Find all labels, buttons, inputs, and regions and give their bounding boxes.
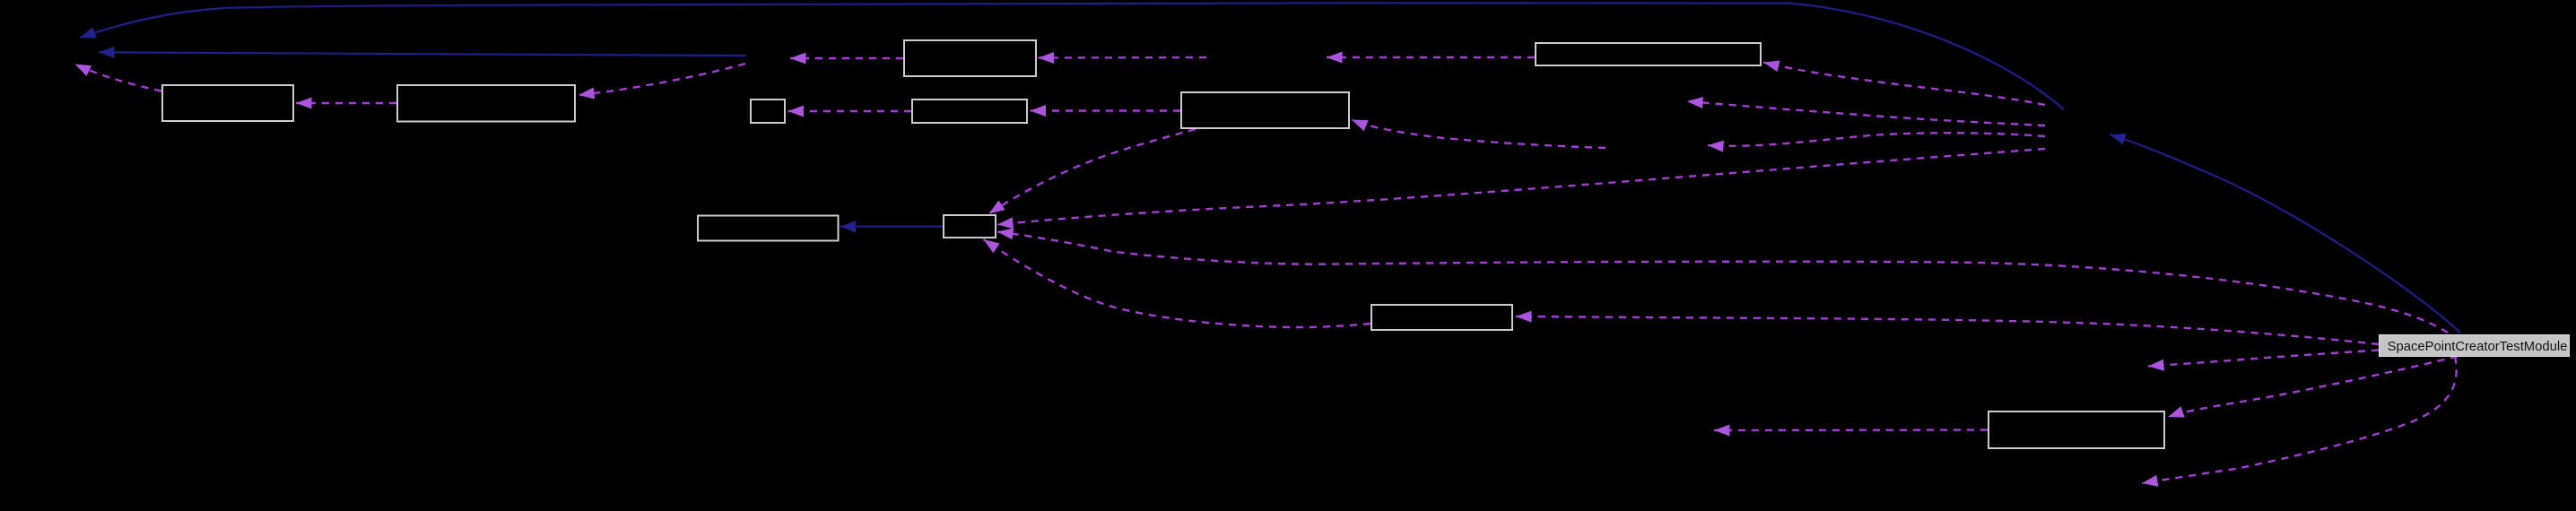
svg-text:SpacePointCreatorTestModule: SpacePointCreatorTestModule [2388,340,2568,354]
